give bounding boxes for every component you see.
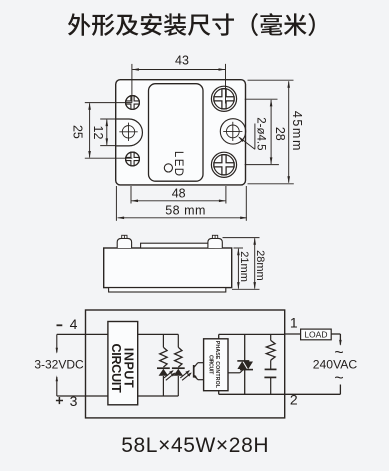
svg-text:2: 2 <box>290 391 298 407</box>
svg-text:28: 28 <box>273 127 287 141</box>
svg-text:INPUTCIRCUIT: INPUTCIRCUIT <box>109 344 136 394</box>
dim 48 line <box>132 200 226 202</box>
side view terminal cover <box>141 243 214 248</box>
wire source to terminal 2 <box>339 385 341 395</box>
relay top face <box>149 84 204 182</box>
wire load to source <box>331 333 340 335</box>
input terminal screw (bottom left) <box>126 152 140 166</box>
dim 58 line <box>118 217 247 219</box>
wire U2 top to bus <box>218 334 220 338</box>
dim 28mm extension lines <box>223 237 260 239</box>
dim 21mm extension line <box>234 247 244 249</box>
triac gate wire <box>228 372 240 374</box>
wire terminal 3 <box>57 395 108 397</box>
wire U2 bottom to bus <box>218 391 220 395</box>
output terminal screw (bottom right) <box>211 152 236 177</box>
side view right screw head <box>208 238 222 248</box>
svg-text:43: 43 <box>175 53 189 67</box>
voltage range arrows <box>56 334 58 352</box>
svg-text:LOAD: LOAD <box>304 329 327 339</box>
side view body <box>104 248 232 288</box>
svg-text:45mm: 45mm <box>290 111 304 152</box>
load box <box>301 329 332 340</box>
light arrows to Q1 <box>182 373 191 380</box>
svg-text:2-ø4.5: 2-ø4.5 <box>254 117 266 150</box>
svg-text:~: ~ <box>334 370 343 387</box>
dim 25 extension lines <box>85 102 133 104</box>
LED D1 arrows <box>166 373 175 380</box>
dim 12 extension lines <box>100 118 116 120</box>
snubber capacitor C1 <box>270 360 272 369</box>
dim 45mm line <box>288 81 290 182</box>
left mounting tab <box>116 119 142 146</box>
left mounting hole <box>122 126 134 138</box>
svg-text:3-32VDC: 3-32VDC <box>34 358 84 372</box>
dim 43 extension lines <box>131 64 133 102</box>
input terminal screw (top left) <box>126 96 140 110</box>
wire terminal 4 <box>57 333 108 335</box>
triac Q2 <box>244 334 246 361</box>
input circuit block U1 <box>108 322 138 405</box>
phototransistor Q1 <box>193 365 195 378</box>
dim 25 line <box>89 103 91 157</box>
right mounting hole <box>226 125 239 138</box>
dim 58 extension lines <box>115 186 117 221</box>
svg-text:28mm: 28mm <box>254 250 266 281</box>
svg-text:25: 25 <box>70 125 84 139</box>
svg-text:48: 48 <box>172 186 186 200</box>
dim 21mm line <box>237 249 239 289</box>
leader line 2-ø4.5 <box>254 124 256 150</box>
wire input top <box>138 333 179 335</box>
schematic case outline <box>86 310 285 418</box>
side view base plate <box>109 288 226 292</box>
resistor R2 <box>177 334 179 347</box>
phase control circuit block U2 <box>204 339 228 391</box>
dim 28 extension lines <box>245 98 278 100</box>
output terminal screw (top right) <box>211 86 236 111</box>
dim 12 line <box>106 120 108 145</box>
wire terminal 1 <box>285 333 301 335</box>
LED D2 <box>177 376 179 396</box>
svg-text:21mm: 21mm <box>238 251 250 282</box>
dim 28mm line <box>254 238 256 288</box>
resistor R1 <box>162 334 164 347</box>
dim 28 line <box>270 100 272 164</box>
dim 45mm extension lines <box>248 79 294 81</box>
right mounting recess <box>220 119 245 144</box>
snubber resistor R3 <box>270 334 272 340</box>
title 外形及安装尺寸（毫米） <box>68 13 315 36</box>
svg-text:58L×45W×28H: 58L×45W×28H <box>121 434 269 457</box>
dim 43 line <box>132 69 225 71</box>
svg-text:58 mm: 58 mm <box>165 204 206 218</box>
svg-text:4: 4 <box>70 316 78 332</box>
minus sign <box>57 324 63 326</box>
plus sign <box>56 400 63 402</box>
wire input bottom <box>138 395 179 397</box>
svg-text:1: 1 <box>290 314 298 330</box>
dim 48 extension lines <box>130 186 132 204</box>
svg-text:LED: LED <box>172 151 184 178</box>
svg-text:12: 12 <box>91 126 105 140</box>
LED D1 <box>162 376 164 396</box>
side view left screw head <box>117 238 131 248</box>
relay body outline (top view) <box>116 80 246 185</box>
LED indicator hole <box>164 164 172 172</box>
